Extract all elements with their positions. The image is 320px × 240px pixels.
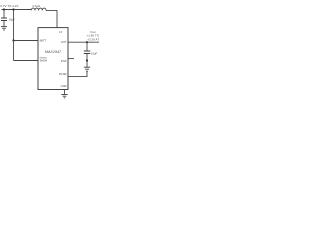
pin SHDN label with overbar (40, 57, 47, 59)
wire input rail (2, 9, 32, 11)
svg-text:SHDN: SHDN (40, 59, 48, 63)
node junction dot BATT branch (12, 39, 14, 41)
wire input cap top lead (3, 10, 5, 18)
capacitor C2 10uF output (84, 51, 98, 55)
wire output cap bottom lead (86, 54, 88, 68)
inductor L1 4.7uH (31, 4, 46, 11)
svg-text:4.7µH: 4.7µH (32, 4, 40, 8)
wire input cap bottom lead (3, 21, 5, 27)
svg-text:OUT: OUT (61, 40, 67, 44)
wire POK pin stub (68, 58, 74, 60)
svg-text:POK: POK (61, 59, 67, 63)
svg-text:10µF: 10µF (91, 51, 98, 55)
wire GND bottom stem (64, 90, 66, 95)
wire output cap top lead (86, 42, 88, 50)
svg-text:GND: GND (61, 84, 67, 88)
node junction dot at input cap (3, 8, 5, 10)
wire SHDN pin (14, 60, 39, 62)
svg-text:+3.3V AT: +3.3V AT (87, 37, 99, 41)
wire PGND pin to output ground node (68, 72, 87, 77)
wire BATT pin (14, 40, 39, 42)
svg-text:10µF: 10µF (9, 17, 16, 21)
IC U1 MAX1947 body (38, 28, 68, 90)
node junction dot output (86, 41, 88, 43)
svg-text:LX: LX (59, 30, 62, 34)
wire battery rail vertical (13, 10, 15, 61)
node junction dot at battery rail (12, 8, 14, 10)
svg-text:PGND: PGND (59, 72, 67, 76)
node junction dot at output ground (86, 59, 88, 61)
ground IC GND (61, 95, 67, 98)
capacitor C1 10uF input (1, 17, 15, 21)
svg-text:0.7V TO 4.2V: 0.7V TO 4.2V (0, 4, 18, 8)
ground output cap (84, 67, 90, 71)
ground input cap (1, 27, 7, 30)
svg-text:BATT: BATT (40, 39, 47, 43)
svg-text:MAX1947: MAX1947 (45, 50, 62, 54)
wire OUT pin to load (68, 41, 99, 43)
wire inductor to LX (46, 10, 57, 27)
